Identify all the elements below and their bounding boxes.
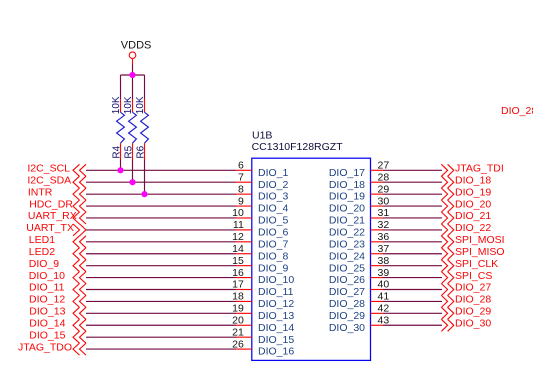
wire bus to R5 <box>132 75 134 99</box>
svg-text:U1B: U1B <box>252 130 272 142</box>
pin 42 stub <box>371 312 384 314</box>
node I2C_SDA (off-page connector) <box>27 174 86 188</box>
pin 39 stub <box>371 277 384 279</box>
wire DIO_9 to pin 15 <box>86 265 236 267</box>
svg-text:27: 27 <box>378 160 390 172</box>
svg-text:HDC_DR: HDC_DR <box>29 198 73 210</box>
svg-text:LED1: LED1 <box>29 234 55 246</box>
svg-text:DIO_29: DIO_29 <box>455 306 491 318</box>
wire pin 41 to DIO_28 <box>383 300 442 302</box>
pin 21 stub <box>236 336 252 338</box>
wire UART_TX to pin 11 <box>86 229 236 231</box>
svg-text:DIO_10: DIO_10 <box>258 274 294 286</box>
node DIO_9 (off-page connector) <box>29 258 86 272</box>
svg-text:DIO_24: DIO_24 <box>329 250 365 262</box>
wire pin 27 to JTAG_TDI <box>383 169 442 171</box>
pin 40 stub <box>371 289 384 291</box>
svg-text:DIO_11: DIO_11 <box>29 282 65 294</box>
svg-text:19: 19 <box>232 303 244 315</box>
svg-text:DIO_12: DIO_12 <box>258 298 294 310</box>
wire DIO_10 to pin 16 <box>86 277 236 279</box>
svg-text:8: 8 <box>238 183 244 195</box>
svg-text:DIO_19: DIO_19 <box>329 191 365 203</box>
wire DIO_15 to pin 21 <box>86 336 236 338</box>
IC U1B CC1310F128RGZT body <box>252 158 371 360</box>
wire pin 30 to DIO_20 <box>383 205 442 207</box>
wire LED2 to pin 14 <box>86 253 236 255</box>
wire R4 to row <box>120 160 122 171</box>
svg-text:36: 36 <box>378 231 390 243</box>
pin 19 stub <box>236 312 252 314</box>
node DIO_19 (off-page connector) <box>441 186 491 200</box>
svg-text:UART_TX: UART_TX <box>26 222 74 234</box>
wire VDDS vertical <box>132 65 134 76</box>
wire R6 to row <box>144 160 146 195</box>
pin 18 stub <box>236 300 252 302</box>
wire I2C_SCL to pin 6 <box>86 169 236 171</box>
svg-text:40: 40 <box>378 279 390 291</box>
node LED2 (off-page connector) <box>29 246 86 260</box>
svg-text:DIO_7: DIO_7 <box>258 238 289 250</box>
node DIO_22 (off-page connector) <box>441 222 491 236</box>
svg-text:DIO_14: DIO_14 <box>258 322 294 334</box>
pin 14 stub <box>236 253 252 255</box>
wire pin 40 to DIO_27 <box>383 289 442 291</box>
svg-text:DIO_21: DIO_21 <box>455 210 491 222</box>
svg-text:DIO_18: DIO_18 <box>455 174 491 186</box>
node DIO_27 (off-page connector) <box>441 282 491 296</box>
node DIO_14 (off-page connector) <box>29 317 86 331</box>
node UART_RX (off-page connector) <box>28 210 86 224</box>
svg-text:41: 41 <box>378 291 390 303</box>
wire I2C_SDA to pin 7 <box>86 181 236 183</box>
svg-text:DIO_2: DIO_2 <box>258 179 289 191</box>
svg-text:SPI_CS: SPI_CS <box>455 270 492 282</box>
svg-text:R6: R6 <box>136 145 147 158</box>
svg-text:DIO_30: DIO_30 <box>329 322 365 334</box>
svg-text:DIO_27: DIO_27 <box>455 282 491 294</box>
pin 7 stub <box>236 181 252 183</box>
svg-text:14: 14 <box>232 243 244 255</box>
svg-text:10K: 10K <box>111 96 122 114</box>
svg-text:DIO_28: DIO_28 <box>329 298 365 310</box>
pin 29 stub <box>371 193 384 195</box>
svg-text:6: 6 <box>238 160 244 172</box>
svg-text:DIO_18: DIO_18 <box>329 179 365 191</box>
pin 30 stub <box>371 205 384 207</box>
svg-text:32: 32 <box>378 219 390 231</box>
wire pin 37 to SPI_MISO <box>383 253 442 255</box>
node DIO_11 (off-page connector) <box>29 282 86 296</box>
pin 43 stub <box>371 324 384 326</box>
pin 38 stub <box>371 265 384 267</box>
svg-text:10K: 10K <box>123 96 134 114</box>
wire JTAG_TDO to pin 26 <box>86 348 236 350</box>
pin 12 stub <box>236 241 252 243</box>
svg-text:DIO_9: DIO_9 <box>258 262 289 274</box>
node DIO_29 (off-page connector) <box>441 306 491 320</box>
wire R5 to row <box>132 160 134 183</box>
resistor R6 10K <box>135 96 148 159</box>
svg-text:JTAG_TDI: JTAG_TDI <box>455 163 504 175</box>
svg-text:R4: R4 <box>112 145 123 158</box>
node DIO_21 (off-page connector) <box>441 210 491 224</box>
resistor R5 10K <box>123 96 136 159</box>
svg-text:DIO_16: DIO_16 <box>258 346 294 358</box>
svg-text:DIO_26: DIO_26 <box>329 274 365 286</box>
svg-text:28: 28 <box>378 171 390 183</box>
node SPI_CLK (off-page connector) <box>441 258 498 272</box>
pin 27 stub <box>371 169 384 171</box>
wire pin 43 to DIO_30 <box>383 324 442 326</box>
svg-text:R5: R5 <box>124 145 135 158</box>
wire pin 42 to DIO_29 <box>383 312 442 314</box>
svg-text:SPI_CLK: SPI_CLK <box>455 258 498 270</box>
svg-text:DIO_14: DIO_14 <box>29 317 65 329</box>
svg-text:VDDS: VDDS <box>121 40 152 52</box>
node JTAG_TDI (off-page connector) <box>441 163 503 177</box>
svg-text:DIO_1: DIO_1 <box>258 167 289 179</box>
svg-text:10: 10 <box>232 207 244 219</box>
svg-text:DIO_17: DIO_17 <box>329 167 365 179</box>
svg-text:DIO_13: DIO_13 <box>29 306 65 318</box>
svg-text:38: 38 <box>378 255 390 267</box>
svg-text:DIO_15: DIO_15 <box>29 329 65 341</box>
svg-text:CC1310F128RGZT: CC1310F128RGZT <box>252 141 344 153</box>
node DIO_28 (off-page connector) <box>441 294 491 308</box>
svg-text:7: 7 <box>238 171 244 183</box>
svg-text:DIO_8: DIO_8 <box>258 250 289 262</box>
svg-text:39: 39 <box>378 267 390 279</box>
wire bus to R4 <box>120 75 122 99</box>
svg-text:DIO_4: DIO_4 <box>258 203 289 215</box>
node DIO_18 (off-page connector) <box>441 174 491 188</box>
svg-text:DIO_25: DIO_25 <box>329 262 365 274</box>
pin 26 stub <box>236 348 252 350</box>
pin 9 stub <box>236 205 252 207</box>
svg-text:16: 16 <box>232 267 244 279</box>
wire bus to R6 <box>144 75 146 99</box>
junction VDDS bus <box>129 72 135 78</box>
node SPI_CS (off-page connector) <box>441 270 492 284</box>
svg-text:DIO_30: DIO_30 <box>455 317 491 329</box>
node JTAG_TDO (off-page connector) <box>18 341 86 355</box>
wire pin 36 to SPI_MOSI <box>383 241 442 243</box>
node SPI_MOSI (off-page connector) <box>441 234 504 248</box>
svg-text:DIO_15: DIO_15 <box>258 334 294 346</box>
pin 41 stub <box>371 300 384 302</box>
svg-text:I2C_SDA: I2C_SDA <box>27 174 71 186</box>
pin 8 stub <box>236 193 252 195</box>
resistor R4 10K <box>111 96 124 159</box>
node DIO_13 (off-page connector) <box>29 306 86 320</box>
svg-text:DIO_22: DIO_22 <box>455 222 491 234</box>
svg-text:DIO_21: DIO_21 <box>329 215 365 227</box>
wire DIO_13 to pin 19 <box>86 312 236 314</box>
svg-text:42: 42 <box>378 303 390 315</box>
svg-text:UART_RX: UART_RX <box>28 210 77 222</box>
svg-text:DIO_22: DIO_22 <box>329 227 365 239</box>
svg-text:I2C_SCL: I2C_SCL <box>27 163 70 175</box>
junction R6 to wire <box>141 191 147 197</box>
pin 31 stub <box>371 217 384 219</box>
pin 11 stub <box>236 229 252 231</box>
wire pin 38 to SPI_CLK <box>383 265 442 267</box>
pin 17 stub <box>236 289 252 291</box>
svg-text:JTAG_TDO: JTAG_TDO <box>18 341 72 353</box>
svg-text:9: 9 <box>238 195 244 207</box>
svg-text:DIO_10: DIO_10 <box>29 270 65 282</box>
svg-text:DIO_28: DIO_28 <box>455 294 491 306</box>
wire HDC_DR to pin 9 <box>86 205 236 207</box>
svg-text:10K: 10K <box>135 96 146 114</box>
wire pin 39 to SPI_CS <box>383 277 442 279</box>
svg-text:26: 26 <box>232 338 244 350</box>
junction R5 to wire <box>129 179 135 185</box>
pin 10 stub <box>236 217 252 219</box>
svg-text:17: 17 <box>232 279 244 291</box>
pin 20 stub <box>236 324 252 326</box>
node DIO_15 (off-page connector) <box>29 329 86 343</box>
pin 15 stub <box>236 265 252 267</box>
node DIO_30 (off-page connector) <box>441 317 491 331</box>
svg-text:21: 21 <box>232 326 244 338</box>
svg-text:29: 29 <box>378 183 390 195</box>
svg-text:11: 11 <box>233 219 244 231</box>
svg-text:DIO_5: DIO_5 <box>258 215 289 227</box>
pin 32 stub <box>371 229 384 231</box>
wire LED1 to pin 12 <box>86 241 236 243</box>
svg-text:15: 15 <box>232 255 244 267</box>
svg-text:DIO_12: DIO_12 <box>29 294 65 306</box>
svg-text:20: 20 <box>232 314 244 326</box>
node DIO_10 (off-page connector) <box>29 270 86 284</box>
svg-text:43: 43 <box>378 314 390 326</box>
svg-text:30: 30 <box>378 195 390 207</box>
power symbol VDDS <box>121 40 152 65</box>
wire pin 28 to DIO_18 <box>383 181 442 183</box>
svg-text:31: 31 <box>378 207 390 219</box>
svg-text:DIO_20: DIO_20 <box>455 198 491 210</box>
svg-text:DIO_23: DIO_23 <box>329 238 365 250</box>
node SPI_MISO (off-page connector) <box>441 246 504 260</box>
wire UART_RX to pin 10 <box>86 217 236 219</box>
svg-text:DIO_3: DIO_3 <box>258 191 289 203</box>
node INTR (off-page connector) <box>28 186 86 200</box>
svg-text:12: 12 <box>232 231 244 243</box>
junction R4 to wire <box>117 167 123 173</box>
pin 37 stub <box>371 253 384 255</box>
wire DIO_12 to pin 18 <box>86 300 236 302</box>
node LED1 (off-page connector) <box>29 234 86 248</box>
wire INTR to pin 8 <box>86 193 236 195</box>
node DIO_12 (off-page connector) <box>29 294 86 308</box>
svg-text:DIO_11: DIO_11 <box>258 286 294 298</box>
svg-text:37: 37 <box>378 243 390 255</box>
wire pin 29 to DIO_19 <box>383 193 442 195</box>
wire pin 32 to DIO_22 <box>383 229 442 231</box>
svg-text:SPI_MISO: SPI_MISO <box>455 246 505 258</box>
svg-text:DIO_20: DIO_20 <box>329 203 365 215</box>
svg-text:LED2: LED2 <box>29 246 55 258</box>
svg-text:INTR: INTR <box>28 186 53 198</box>
wire resistor top bus <box>121 74 145 76</box>
wire DIO_11 to pin 17 <box>86 289 236 291</box>
node UART_TX (off-page connector) <box>26 222 86 236</box>
svg-text:DIO_6: DIO_6 <box>258 227 289 239</box>
node HDC_DR (off-page connector) <box>29 198 86 212</box>
node DIO_20 (off-page connector) <box>441 198 491 212</box>
svg-text:DIO_9: DIO_9 <box>29 258 60 270</box>
pin 16 stub <box>236 277 252 279</box>
pin 28 stub <box>371 181 384 183</box>
pin 36 stub <box>371 241 384 243</box>
svg-text:18: 18 <box>232 291 244 303</box>
svg-text:DIO_29: DIO_29 <box>329 310 365 322</box>
wire DIO_14 to pin 20 <box>86 324 236 326</box>
svg-text:DIO_19: DIO_19 <box>455 186 491 198</box>
svg-text:DIO_28: DIO_28 <box>501 105 533 117</box>
svg-text:DIO_13: DIO_13 <box>258 310 294 322</box>
svg-text:SPI_MOSI: SPI_MOSI <box>455 234 505 246</box>
node I2C_SCL (off-page connector) <box>27 163 86 177</box>
svg-text:DIO_27: DIO_27 <box>329 286 365 298</box>
wire pin 31 to DIO_21 <box>383 217 442 219</box>
pin 6 stub <box>236 169 252 171</box>
